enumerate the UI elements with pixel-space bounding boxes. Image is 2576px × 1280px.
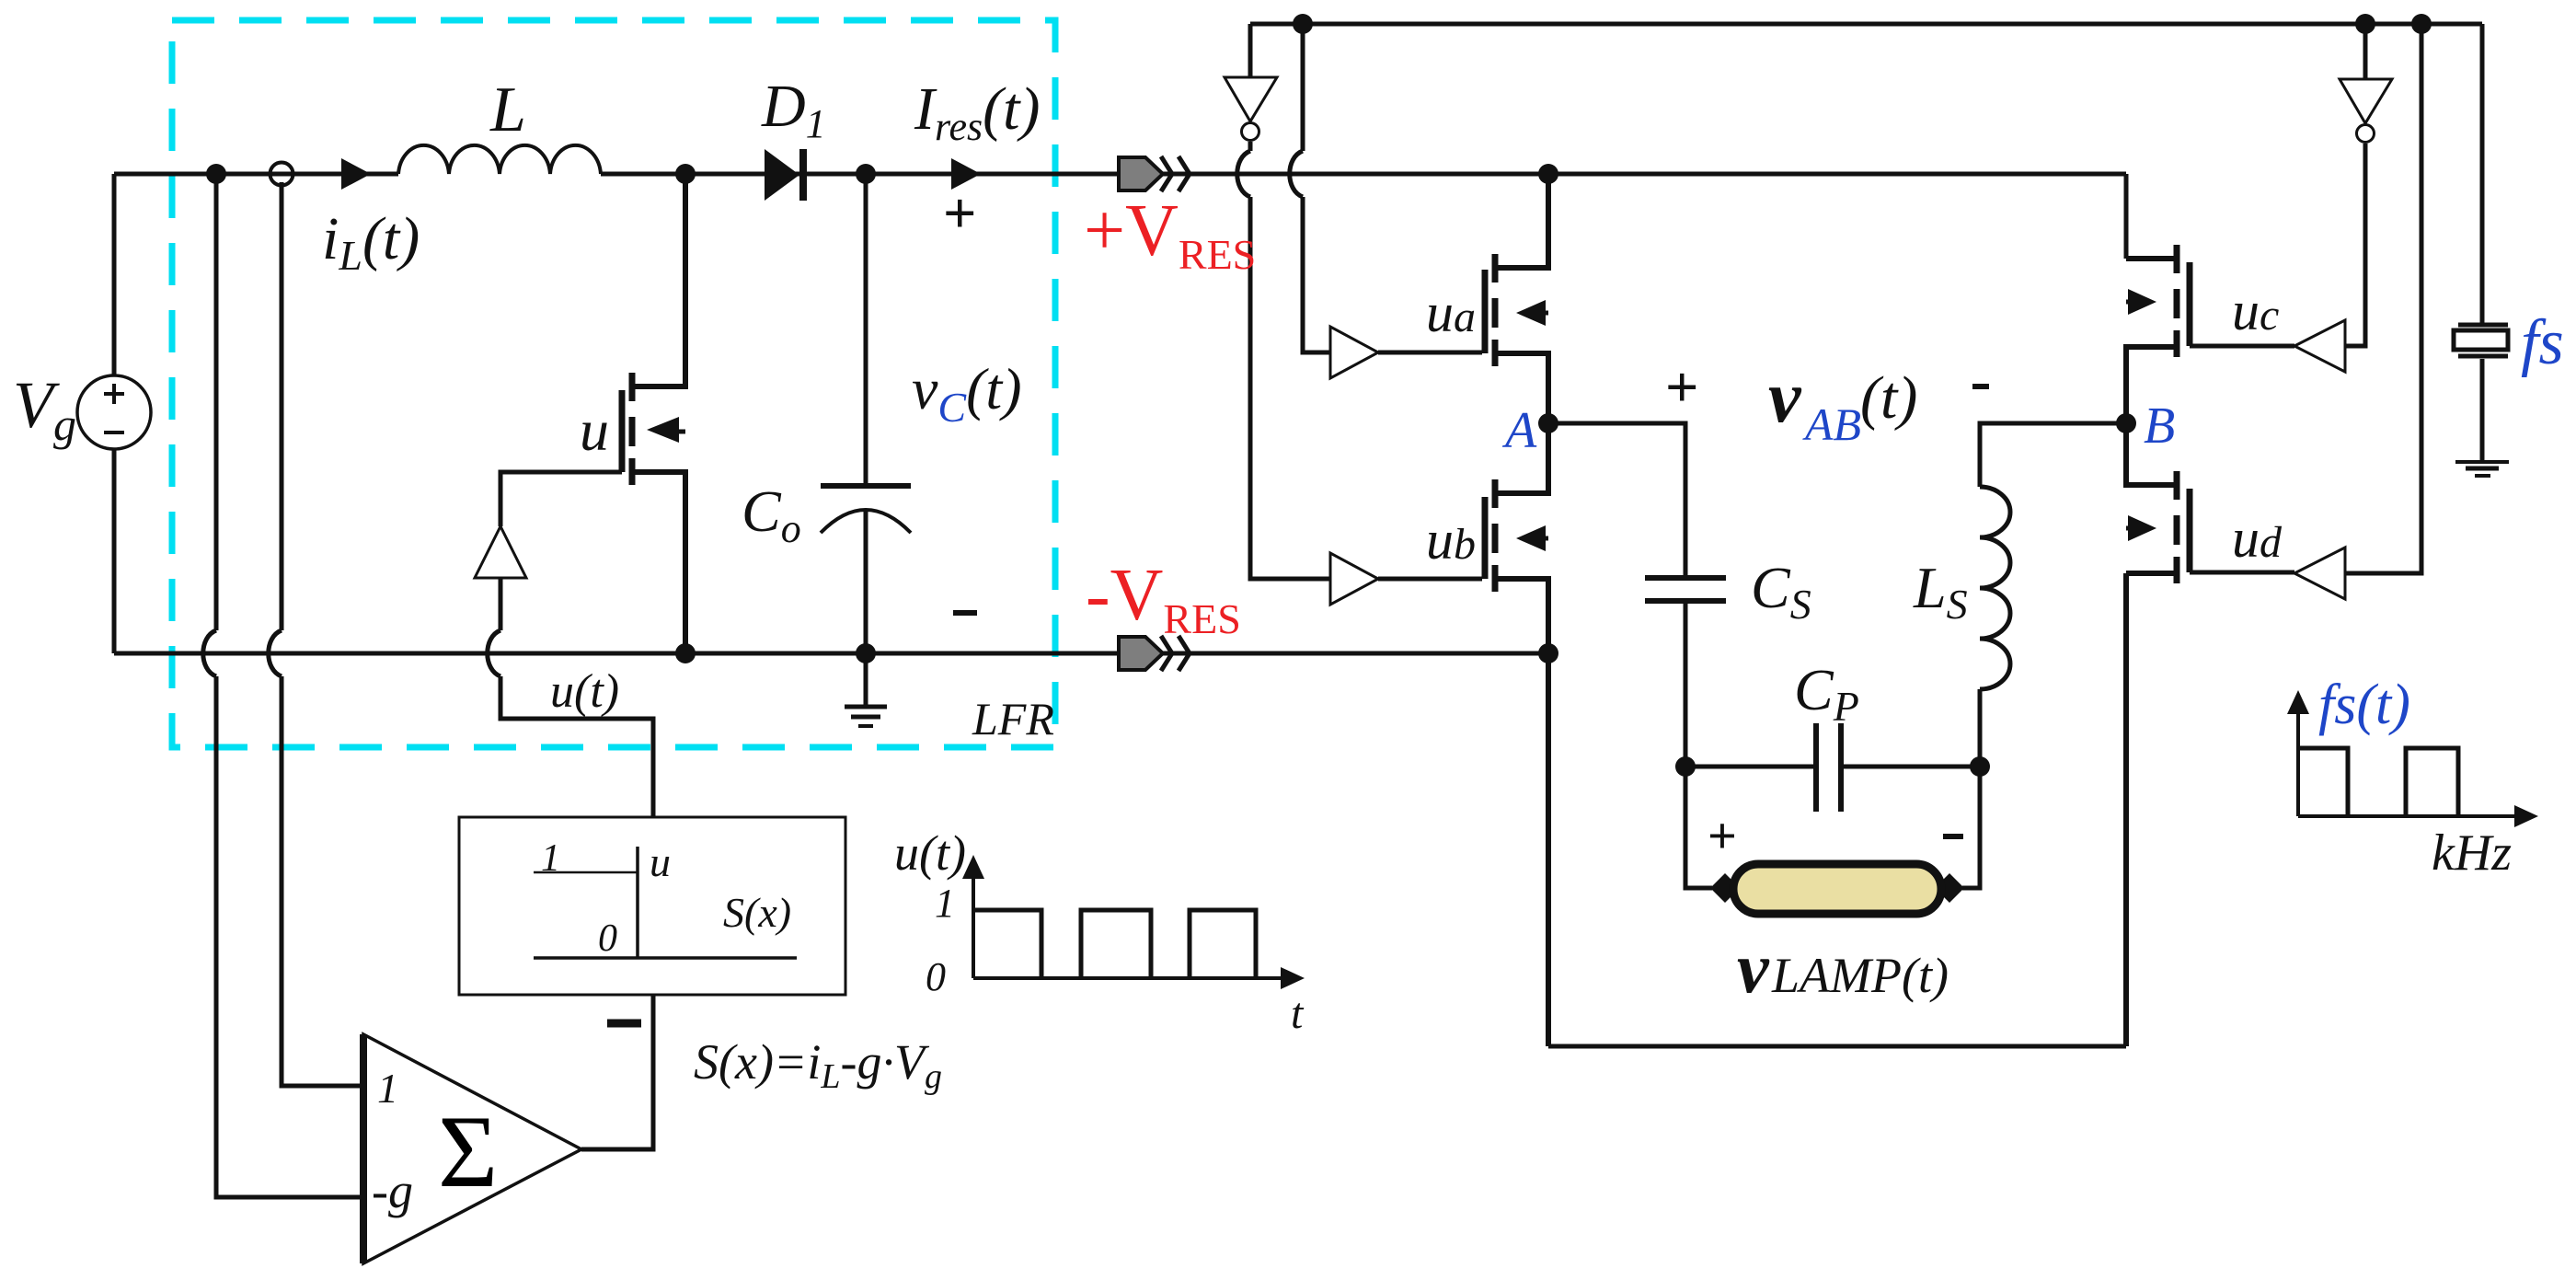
svg-text:-g: -g (372, 1163, 413, 1218)
svg-text:u: u (580, 398, 609, 463)
svg-text:B: B (2144, 398, 2175, 455)
svg-text:+: + (943, 180, 976, 246)
svg-text:0: 0 (598, 917, 617, 960)
svg-text:(t): (t) (1860, 364, 1917, 432)
svg-text:A: A (1501, 402, 1537, 459)
svg-text:LFR: LFR (972, 693, 1054, 744)
svg-text:kHz: kHz (2432, 825, 2512, 882)
svg-text:L: L (489, 75, 526, 145)
svg-text:fs: fs (2521, 307, 2564, 378)
svg-text:u(t): u(t) (550, 665, 619, 718)
svg-text:Σ: Σ (438, 1095, 498, 1209)
svg-text:+: + (1708, 808, 1737, 865)
svg-text:S(x): S(x) (723, 889, 791, 936)
svg-text:1: 1 (935, 881, 955, 926)
svg-text:v: v (1737, 928, 1770, 1008)
svg-text:AB: AB (1802, 398, 1861, 450)
svg-text:0: 0 (926, 954, 946, 999)
svg-text:1: 1 (541, 837, 560, 880)
svg-text:iL(t): iL(t) (322, 205, 420, 279)
svg-text:+: + (1665, 354, 1698, 420)
svg-text:v: v (1768, 357, 1802, 438)
svg-text:LAMP(t): LAMP(t) (1771, 948, 1949, 1003)
svg-text:u: u (650, 838, 671, 885)
svg-text:t: t (1291, 989, 1305, 1038)
svg-text:vC(t): vC(t) (912, 356, 1022, 431)
svg-text:fs(t): fs(t) (2318, 674, 2410, 736)
svg-text:S(x)=iL-g·Vg: S(x)=iL-g·Vg (694, 1034, 942, 1096)
svg-text:u(t): u(t) (894, 825, 966, 881)
svg-text:1: 1 (377, 1065, 398, 1112)
